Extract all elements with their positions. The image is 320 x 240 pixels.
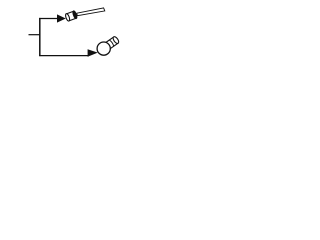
needle shaft (long thin rod)	[77, 8, 105, 16]
arrow to knob electrode	[88, 49, 98, 56]
arrow to needle probe	[57, 14, 66, 22]
wire: top horizontal branch	[39, 18, 57, 20]
wire: left stub tick	[29, 34, 40, 36]
knob head (circle)	[97, 42, 110, 55]
wire: vertical bus	[39, 18, 41, 56]
needle hub (tilted cylinder)	[65, 10, 78, 21]
knob shank (tilted cylinder with cap)	[106, 36, 120, 49]
wire: bottom horizontal branch	[39, 55, 89, 57]
